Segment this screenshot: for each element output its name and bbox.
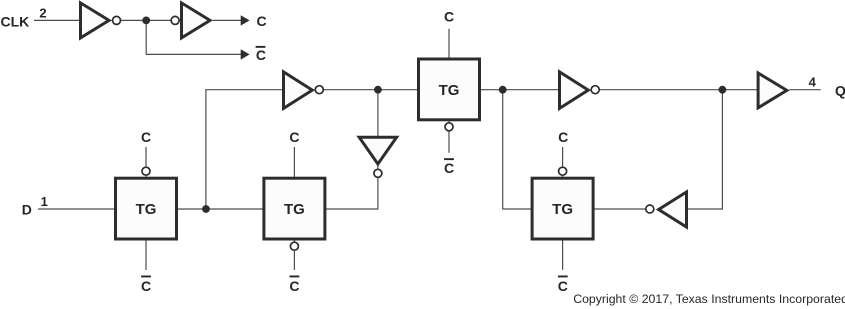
wire Cbar stub below TG3 xyxy=(448,121,450,153)
bubble INV4 output xyxy=(646,205,654,213)
bubble INV2 output xyxy=(315,86,323,94)
svg-text:TG: TG xyxy=(284,201,305,218)
svg-text:CLK: CLK xyxy=(1,14,30,30)
bubble INV1 output xyxy=(113,16,121,24)
wire node N1 down to Cbar branch xyxy=(146,20,241,54)
node N1 (clock inverter output junction) xyxy=(142,17,150,25)
svg-text:C: C xyxy=(141,129,151,145)
wire INV3 output to BUF2 input xyxy=(591,89,757,91)
wire C stub above TG1 xyxy=(145,147,147,177)
wire C stub above TG2 xyxy=(293,147,295,177)
svg-text:C: C xyxy=(141,278,151,294)
svg-text:Q: Q xyxy=(835,82,845,98)
wire INV1 output to BUF1 input xyxy=(112,19,181,21)
node N4 (TG3 output junction) xyxy=(499,86,507,94)
svg-text:C: C xyxy=(257,13,267,29)
svg-text:C: C xyxy=(256,47,266,63)
node N2 (master latch node) xyxy=(374,86,382,94)
wire Cbar stub below TG1 xyxy=(145,240,147,270)
transmission gate TG1 xyxy=(116,178,177,239)
wire TG4 output to INV4 output bubble xyxy=(594,208,646,210)
svg-text:C: C xyxy=(444,9,454,25)
bubble TG3 Cbar control (bottom) xyxy=(445,123,453,131)
svg-text:C: C xyxy=(289,129,299,145)
wire node N2 down through INVD to TG2 output xyxy=(326,90,378,209)
arrow to C net xyxy=(241,15,250,25)
svg-text:1: 1 xyxy=(41,194,48,209)
transmission gate TG4 xyxy=(532,178,593,239)
wire BUF1 output to C arrow xyxy=(213,19,242,21)
wire CLK input xyxy=(34,19,80,21)
node N3 (TG1 output junction) xyxy=(202,205,210,213)
svg-text:C: C xyxy=(289,278,299,294)
svg-text:TG: TG xyxy=(552,201,573,218)
buffer BUF1 (C clock buffer, input bubble drawn separately) xyxy=(182,3,211,38)
transmission gate TG3 xyxy=(419,59,480,120)
inverter INV2 (master feedback inverter) xyxy=(284,72,313,109)
arrow to Cbar net xyxy=(241,49,250,59)
buffer BUF2 (Q output buffer) xyxy=(758,73,787,108)
inverter INV4 (left-pointing slave feedback inverter) xyxy=(659,192,687,227)
svg-text:C: C xyxy=(558,278,568,294)
svg-text:C: C xyxy=(558,129,568,145)
inverter INV3 (slave inverter) xyxy=(560,72,589,109)
bubble BUF1 input xyxy=(171,16,179,24)
svg-text:C: C xyxy=(444,160,454,176)
wire node N5 down to INV4 input xyxy=(687,90,722,209)
wire Cbar stub below TG2 xyxy=(293,240,295,270)
svg-text:Copyright © 2017, Texas Instru: Copyright © 2017, Texas Instruments Inco… xyxy=(573,292,845,306)
svg-text:TG: TG xyxy=(439,82,460,99)
bubble TG2 Cbar control (bottom) xyxy=(290,242,298,250)
wire master loop vertical from node N3 up to INV2 xyxy=(206,90,283,209)
wire BUF2 output to Q xyxy=(789,89,820,91)
wire D input to TG1 xyxy=(38,208,114,210)
inverter INVD (down-pointing master loop inverter) xyxy=(359,137,396,164)
wire TG3 output to INV3 input xyxy=(481,89,560,91)
bubble INVD output xyxy=(374,169,382,177)
bubble TG4 C control (top) xyxy=(559,167,567,175)
wire C stub above TG4 xyxy=(562,147,564,177)
svg-text:D: D xyxy=(22,201,32,217)
svg-text:4: 4 xyxy=(809,75,817,90)
wire TG1 output to TG2 input xyxy=(178,208,263,210)
wire Cbar stub below TG4 xyxy=(562,240,564,270)
wire INV2 output to TG3 input xyxy=(315,89,418,91)
wire C stub above TG3 xyxy=(448,29,450,58)
bubble INV3 output xyxy=(591,86,599,94)
svg-text:2: 2 xyxy=(39,5,46,20)
wire node N4 down to TG4 input xyxy=(503,90,531,209)
inverter INV1 (CLK input inverter) xyxy=(81,3,110,38)
node N5 (slave output junction) xyxy=(719,86,727,94)
svg-text:TG: TG xyxy=(136,201,157,218)
transmission gate TG2 xyxy=(264,178,325,239)
bubble TG1 C control (top) xyxy=(142,167,150,175)
